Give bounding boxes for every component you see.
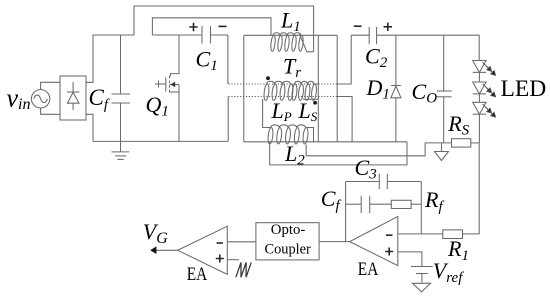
wire bridge+ up to top rail — [86, 35, 134, 82]
label - of C1 — [219, 25, 227, 27]
capacitor C_f — [112, 35, 131, 141]
wire rail B — [244, 141, 407, 143]
wire source bottom to bridge — [41, 108, 60, 114]
label + of C2 — [384, 23, 392, 31]
phase dot primary — [266, 76, 270, 80]
wire bridge- down to bottom rail — [86, 114, 93, 141]
wire EA1 output — [152, 249, 178, 251]
svg-text:Coupler: Coupler — [265, 241, 311, 257]
led D3 — [473, 72, 486, 94]
diode D1 — [391, 35, 401, 142]
led light arrows — [483, 84, 496, 97]
wire C3 left vertical — [345, 182, 347, 242]
wire loop below rail B — [270, 142, 407, 165]
wire LED top — [478, 35, 480, 60]
op-amp EA2 — [350, 217, 398, 266]
winding L_P — [263, 81, 293, 100]
resistor Rf — [391, 200, 411, 208]
phase dot secondary — [313, 101, 317, 105]
wire jumper y6 (C_f node to L_1 right) — [134, 6, 314, 52]
label - EA2 — [386, 234, 393, 236]
battery V_ref — [411, 267, 433, 283]
led D2 — [473, 61, 486, 73]
inductor L1 — [270, 33, 313, 52]
wire Rf right — [411, 203, 421, 205]
capacitor C1 — [202, 26, 228, 44]
wire ground rail up to bottom core line — [227, 97, 229, 142]
label - of C2 — [354, 25, 362, 27]
bridge rectifier box — [60, 76, 86, 120]
bridge diode — [67, 82, 80, 110]
inductor L2 — [267, 125, 308, 144]
wire axis-left corner down to rail B — [243, 35, 245, 142]
wire source top to bridge — [41, 82, 60, 89]
led light arrows — [483, 62, 496, 75]
core line bottom (dotted) — [229, 96, 338, 98]
ground arrow output — [435, 143, 449, 161]
wire L1 axis rail — [244, 34, 337, 36]
label + EA2 — [385, 248, 393, 256]
capacitor Cf feedback — [346, 196, 392, 213]
core line top (dotted) — [229, 83, 338, 85]
capacitor CO — [437, 35, 452, 143]
capacitor C2 — [351, 27, 479, 44]
winding L_S — [291, 81, 318, 100]
resistor R1 — [443, 230, 463, 239]
wire L2 axis left riser to transformer — [263, 99, 271, 128]
wire sense down to R1 — [463, 143, 480, 234]
wire L2 exit to sense line — [306, 143, 425, 156]
wire top rail segment (C_1 left) — [152, 34, 202, 36]
wire bottom tap to rail B — [337, 97, 352, 142]
label + of C1 — [189, 23, 197, 31]
wire EA2 inverting input to R1 — [398, 233, 443, 235]
transistor Q1 mosfet — [155, 35, 179, 141]
wire opto to EA1 — [227, 241, 256, 243]
wire tall vertical left — [317, 35, 319, 142]
wire C3 right vertical — [420, 182, 422, 234]
label - EA1 — [217, 242, 224, 244]
opto-coupler box — [256, 223, 319, 260]
wire tall vertical right — [336, 35, 338, 142]
op-amp EA1 — [178, 226, 228, 274]
arrow V_G — [150, 246, 156, 254]
ac source v_in — [31, 90, 49, 108]
wire EA2 + input — [398, 252, 422, 267]
svg-text:EA: EA — [187, 264, 208, 285]
wire RS right — [471, 142, 479, 144]
wire jumper y18 (C_1 left node to L_1 left) — [152, 18, 271, 36]
bottom rail A — [93, 140, 228, 142]
wire EA1 + input stub — [227, 259, 239, 261]
led D4 — [473, 94, 486, 143]
wire L2 axis right corner to rail B — [306, 128, 314, 142]
wire RS left — [425, 142, 451, 144]
label + EA1 — [216, 255, 224, 263]
ground under V_ref — [413, 283, 431, 292]
led light arrows — [483, 104, 496, 117]
svg-text:EA: EA — [358, 259, 379, 280]
svg-text:Opto-: Opto- — [271, 222, 306, 238]
wire C2 left down to top tap — [337, 35, 351, 84]
sawtooth ramp symbol — [236, 262, 251, 277]
wire C1 right down to top core line — [227, 35, 229, 84]
ground under C_f — [112, 141, 130, 159]
wire EA2 output to opto — [319, 241, 350, 243]
resistor RS — [452, 139, 471, 147]
Q1 arrow — [170, 82, 175, 88]
capacitor C3 — [346, 174, 422, 190]
svg-text:LED: LED — [501, 76, 547, 102]
